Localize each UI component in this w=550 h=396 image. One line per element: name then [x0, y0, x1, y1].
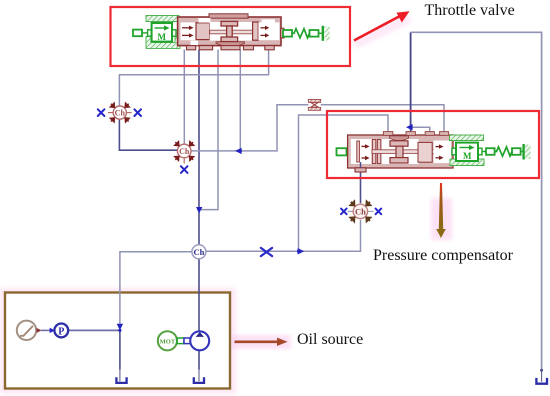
pump [190, 331, 209, 350]
tank T2 [194, 377, 204, 383]
wire: pump inlet down to tank T2 [198, 350, 200, 369]
throttle valve return spring [283, 26, 323, 41]
pink glow behind throttle arrow [352, 13, 412, 48]
svg-text:Oil source: Oil source [297, 331, 363, 348]
plug X left of Ch1 [108, 112, 113, 114]
compensator left chamber [351, 139, 372, 164]
tank T1 [116, 377, 126, 383]
throttle valve right stub tab [281, 28, 284, 38]
compensator cup above spool [390, 136, 409, 141]
compensator right chamber [434, 141, 452, 164]
compensator spool rod [372, 150, 434, 154]
throttle valve divider [253, 22, 259, 40]
chamber Ch4 circle [353, 204, 367, 218]
pink glow behind oil source box [0, 288, 236, 394]
wire: chamber Ch2 right, up to orifice left port [191, 105, 308, 151]
wire: tank return loop from compensator valve top ports to tank T3 [410, 32, 412, 132]
plug X left of Ch4 [348, 210, 354, 212]
throttle valve solenoid M [148, 30, 152, 36]
throttle valve right chamber [258, 22, 279, 40]
svg-text:MOT: MOT [160, 338, 176, 345]
wire: main horizontal line Ch3 to compensator bottom via Ch4 [206, 220, 361, 252]
compensator top port tabs [383, 132, 448, 136]
svg-text:Ch: Ch [193, 247, 204, 257]
throttle valve spool land [196, 23, 210, 40]
throttle valve dish under spool [216, 42, 245, 47]
red arrow down to Pressure compensator label [439, 183, 443, 229]
compensator bottom port tab [355, 168, 366, 172]
svg-text:Ch: Ch [355, 207, 366, 217]
throttle valve spool rod [210, 30, 253, 34]
wire: junction down to tank T1 [119, 330, 121, 369]
wire: orifice right port to compensator valve top port 4 [321, 105, 444, 132]
junction arrow: branch into main horizontal line [298, 248, 305, 254]
compensator stem in left chamber [360, 162, 362, 168]
throttle valve bottom port tabs [187, 46, 275, 50]
compensator solenoid hatched bars [450, 135, 484, 141]
compensator spring [482, 144, 524, 160]
red arrow to Throttle valve label [354, 11, 410, 40]
svg-text:Ch: Ch [179, 147, 190, 156]
chamber Ch1 circle [113, 106, 126, 119]
wire: pump outlet up to node Ch3 [198, 259, 200, 332]
compensator double band [372, 140, 375, 164]
svg-text:Ch: Ch [115, 109, 126, 118]
wire: valve1 port1 down to chamber Ch2 top [183, 50, 185, 145]
svg-text:Throttle valve: Throttle valve [425, 2, 515, 19]
throttle valve solenoid bottom hatched tray [146, 37, 180, 49]
wire: pressure source P to junction [68, 329, 120, 331]
plug X right of Ch4 [368, 210, 374, 212]
tank T3 bottom right [536, 378, 547, 384]
throttle valve solenoid top hatched bar [146, 16, 179, 22]
throttle valve body [178, 17, 281, 46]
throttle valve body top cap [209, 14, 248, 18]
compensator solenoid M [452, 148, 456, 155]
Ch1 inward arrows [110, 103, 129, 122]
wire: branch from supply horizontal up-right to compensator valve top port 1 [299, 115, 389, 251]
pink glow behind oil source arrow [231, 335, 291, 349]
brown arrow to Oil source label [235, 340, 280, 343]
plug X right of Ch1 [126, 112, 131, 114]
compensator input port (green) [337, 148, 347, 155]
svg-text:P: P [58, 326, 64, 337]
wire: valve1 port5 down, left, down to chamber Ch1 top [119, 50, 268, 106]
svg-text:M: M [463, 151, 472, 161]
wire: valve1 port4 down to junction on Ch2-orifice line [239, 50, 241, 151]
pink glow behind pressure compensator arrow [431, 198, 452, 240]
pressure source P [54, 324, 68, 338]
compensator valve body [348, 135, 453, 168]
junction arrow: port3 line into supply line [196, 207, 202, 213]
svg-text:Pressure compensator: Pressure compensator [373, 247, 514, 264]
throttle valve signal port [133, 30, 142, 37]
wire: Ch3 left then down to pump outlet junction [120, 252, 192, 327]
junction arrow: port4 line into Ch2-orifice line [235, 148, 242, 154]
compensator right block [418, 142, 432, 162]
electric motor MOT [158, 331, 177, 350]
throttle valve spool I-beam [221, 21, 238, 41]
Ch2 inward arrows [175, 142, 194, 161]
arrow from gauge to P [37, 328, 42, 333]
junction arrow: Ch3 branch down into P line [117, 324, 123, 330]
throttle valve middle chamber [210, 22, 253, 41]
Ch4 inward arrows [350, 201, 371, 222]
wire: chamber Ch4 top to compensator valve bottom port [360, 168, 362, 203]
svg-text:M: M [158, 32, 167, 42]
throttle valve left chamber [181, 22, 196, 40]
junction arrow: tank loop branch [406, 124, 413, 130]
wire: branch to compensator valve top port 3 [411, 127, 430, 132]
shutoff valve X on main line [261, 248, 272, 256]
plug X below Ch2 [183, 158, 185, 164]
wire: valve1 port2 down to node Ch3 (supply line) [198, 50, 200, 245]
throttle valve white notches [199, 18, 211, 23]
shaft motor-pump [177, 338, 184, 344]
wire: chamber Ch1 bottom to chamber Ch2 left [119, 119, 177, 150]
wire: valve1 port3 down then left to junction on supply line [201, 50, 218, 210]
compensator spool I-beam [390, 141, 408, 163]
chamber Ch2 circle [177, 144, 191, 158]
oil source box body [5, 293, 230, 389]
compensator middle chamber [382, 139, 419, 164]
ramp signal source (gauge) [17, 321, 36, 340]
